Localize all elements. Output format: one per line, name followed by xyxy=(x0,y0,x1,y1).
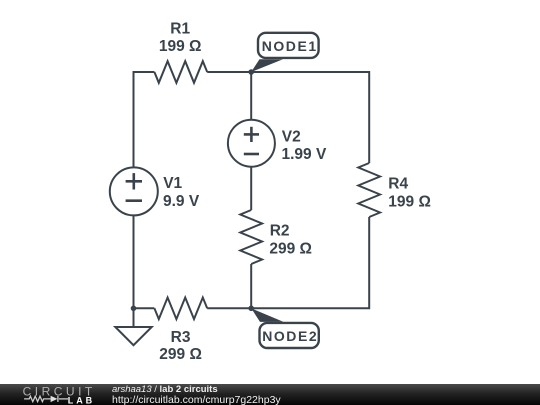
svg-text:R1: R1 xyxy=(170,21,190,38)
svg-text:R2: R2 xyxy=(270,222,290,239)
node NODE2 label box xyxy=(260,323,319,348)
resistor R4 xyxy=(358,163,380,217)
voltage source V2 xyxy=(228,120,275,167)
wire middle rail top xyxy=(250,72,252,120)
svg-text:R3: R3 xyxy=(171,329,191,346)
node NODE1 pointer tail xyxy=(251,59,283,72)
svg-text:299 Ω: 299 Ω xyxy=(269,241,312,258)
voltage source V1 xyxy=(110,167,158,215)
wire right rail bottom with corner xyxy=(207,217,369,308)
svg-text:299 Ω: 299 Ω xyxy=(159,346,202,363)
ground xyxy=(133,308,135,327)
node dot NODE2 junction xyxy=(248,306,254,312)
footer text xyxy=(112,385,281,405)
wire middle rail bottom xyxy=(250,264,252,308)
resistor R1 xyxy=(154,61,207,83)
wire middle rail mid xyxy=(250,167,252,210)
svg-text:NODE1: NODE1 xyxy=(262,38,318,54)
svg-text:NODE2: NODE2 xyxy=(262,328,318,344)
svg-text:LAB: LAB xyxy=(68,396,95,405)
svg-text:199 Ω: 199 Ω xyxy=(159,38,202,55)
node NODE2 pointer tail xyxy=(251,308,283,322)
svg-text:R4: R4 xyxy=(388,175,408,192)
node NODE1 label box xyxy=(258,33,319,58)
resistor R2 xyxy=(240,210,262,264)
resistor R3 xyxy=(154,298,207,320)
wire top right with corner xyxy=(207,72,369,163)
node dot NODE1 junction xyxy=(248,69,254,75)
svg-text:V1: V1 xyxy=(163,175,182,192)
wire left rail bottom with corner xyxy=(134,215,155,308)
svg-text:V2: V2 xyxy=(282,128,301,145)
footer bar xyxy=(0,384,540,405)
svg-text:1.99 V: 1.99 V xyxy=(282,146,327,163)
wire left rail top with corner xyxy=(134,72,155,168)
CircuitLab logo xyxy=(0,384,100,405)
node dot ground junction xyxy=(131,306,137,312)
svg-text:9.9 V: 9.9 V xyxy=(163,193,200,210)
svg-text:199 Ω: 199 Ω xyxy=(388,194,431,211)
